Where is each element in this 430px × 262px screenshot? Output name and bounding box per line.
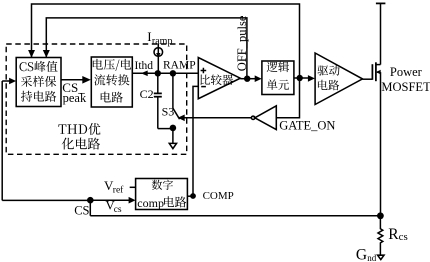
block logic unit [262,61,294,95]
THD optimization circuit dashed box [6,44,187,154]
text V-I block line1 [93,59,131,71]
text driver line2 [318,80,339,91]
text logic line2 [267,79,289,90]
block CS peak sample-and-hold circuit [16,58,61,107]
wire feedback line 2 (OFF_pulse to CS sample block) [46,18,247,78]
text digital line2 hanzi [164,196,186,207]
node B: RAMP / S3 junction [170,70,176,76]
label THD you-hua circuit line2 [62,138,100,150]
svg-text:comp: comp [137,196,164,210]
text V-I block line2 [94,74,129,85]
svg-text:COMP: COMP [203,190,234,202]
svg-text:cs: cs [114,205,122,215]
wire CS feedback into sample block [2,80,10,82]
wire feedback line 1 (logic output to CS sample block) [32,4,300,78]
node E: gate drive node [297,75,303,81]
capacitor C2 [157,73,159,93]
text CS peak block line2 [21,76,56,87]
node D: OFF_pulse [244,76,250,82]
node G: COMP [190,193,196,199]
text CS peak block line1 [19,61,57,72]
wire C2 bottom to S3 bottom [158,128,173,130]
svg-text:GATE_ON: GATE_ON [279,119,335,133]
ground G_nd [378,255,384,259]
block digital comp circuit [136,179,188,210]
text driver line1 [318,65,340,76]
wire CS node down to sense line [89,200,91,216]
switch S3 [172,73,174,108]
wire V_ref input [130,186,136,188]
node F: CS [87,197,94,204]
svg-text:MOSFET: MOSFET [381,80,430,94]
wire V_cs into digital comp [90,199,129,201]
svg-text:Power: Power [390,65,423,79]
svg-text:ramp: ramp [152,36,173,47]
svg-text:ref: ref [113,185,124,196]
comparator plus input [201,68,207,74]
wire CS_peak (sample block to V/I converter) [61,79,86,81]
wire drain up to top terminal [380,3,382,64]
wire node E down to inverter input [276,78,299,118]
wire comparator output [240,78,255,80]
svg-text:OFF_pulse: OFF_pulse [235,15,249,71]
svg-text:CS: CS [74,203,89,217]
wire COMP output [187,195,193,197]
MOSFET channel bar [375,62,377,81]
svg-text:nd: nd [367,253,377,262]
svg-text:S3: S3 [162,104,175,118]
inverter GATE_ON buffer [255,106,276,130]
svg-text:peak: peak [63,91,87,105]
text comparator [200,74,233,85]
text logic line1 [267,62,289,73]
text CS peak block line3 [21,91,56,102]
MOSFET drain stub [376,64,381,66]
svg-text:C2: C2 [140,87,154,101]
wire GATE_ON to S3 [184,117,251,119]
amplifier driver circuit [315,53,362,105]
transistor Power MOSFET gate wire [363,78,373,80]
text V-I block line3 [101,92,123,103]
node H: CS sense / Rcs junction [377,212,384,219]
op-amp comparator U3 [198,58,240,99]
wire Ithd (V/I converter output to RAMP node) [132,72,198,74]
svg-text:RAMP: RAMP [163,59,196,71]
block voltage/current converter circuit [91,57,132,107]
MOSFET source arrow [377,71,381,73]
ground (S3) [172,128,174,143]
svg-text:G: G [356,246,367,262]
resistor Rcs [378,216,383,255]
wire COMP up to comparator inverting input [193,86,198,196]
MOSFET gate bar [371,64,373,80]
wire logic output [294,77,300,79]
svg-text:cs: cs [399,231,408,243]
current source I_ramp [157,44,159,48]
svg-text:Ithd: Ithd [135,60,154,72]
label THD you-hua circuit line1 [58,123,100,135]
text digital line1 [152,180,173,190]
node C: S3 bottom junction [170,125,177,132]
comparator minus input [201,86,206,88]
wire CS sense line (to Rcs node) [90,215,380,217]
wire source down to Rcs node [380,72,382,216]
node A: Ithd / C2 junction [155,70,161,76]
